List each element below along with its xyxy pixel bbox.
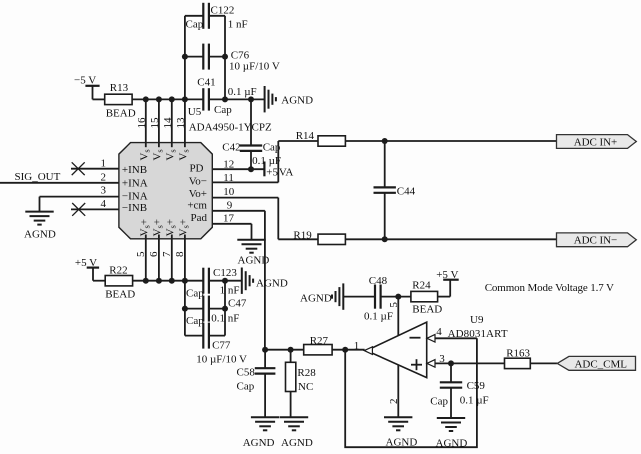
- svg-text:Cap: Cap: [186, 18, 204, 30]
- svg-text:C42: C42: [222, 141, 240, 153]
- wire pin 2 to ground: [397, 365, 399, 417]
- svg-text:BEAD: BEAD: [105, 288, 135, 300]
- svg-text:10: 10: [223, 186, 235, 198]
- resistor R22 (BEAD): [105, 264, 135, 300]
- svg-text:C41: C41: [197, 77, 215, 89]
- power -5 V: [74, 74, 100, 99]
- svg-text:15: 15: [149, 117, 161, 129]
- svg-text:BEAD: BEAD: [412, 303, 442, 315]
- svg-text:C44: C44: [397, 186, 416, 198]
- wire R19 to ADC IN-: [345, 238, 556, 240]
- power +5VA: [264, 162, 293, 179]
- opamp output arrow pin 1: [364, 347, 372, 355]
- wire pin 9 +cm horizontal: [212, 210, 265, 212]
- svg-text:SIG_OUT: SIG_OUT: [15, 171, 61, 183]
- svg-text:14: 14: [162, 117, 174, 129]
- svg-text:7: 7: [161, 251, 173, 257]
- svg-text:C59: C59: [467, 380, 486, 392]
- svg-text:Vo+: Vo+: [189, 188, 207, 200]
- capacitor C77 10uF/10V: [185, 323, 247, 366]
- svg-text:Cap: Cap: [186, 315, 204, 327]
- port ADC IN+: [557, 135, 637, 149]
- opamp input arrow pin 4: [427, 335, 435, 343]
- resistor R28 (NC): [286, 350, 317, 418]
- ground AGND at Pad: [237, 240, 269, 267]
- wire -5V to R13: [93, 98, 106, 100]
- junction dots rail AGND side: [222, 96, 254, 102]
- junction dots C76 row: [182, 54, 228, 60]
- node SIG_OUT wire pin 2: [0, 171, 119, 183]
- svg-text:AGND: AGND: [256, 277, 288, 289]
- svg-text:−INA: −INA: [122, 191, 148, 203]
- svg-text:Cap: Cap: [430, 395, 448, 407]
- port ADC IN-: [557, 233, 637, 247]
- opamp input arrow pin 3: [427, 360, 435, 368]
- svg-text:AGND: AGND: [281, 95, 313, 107]
- svg-text:C48: C48: [369, 275, 388, 287]
- junction dot C44 top: [382, 138, 388, 144]
- svg-text:C47: C47: [228, 298, 247, 310]
- wire pin 4 with no-connect: [71, 208, 119, 210]
- wire pin 5 into opamp: [397, 297, 399, 336]
- svg-text:AGND: AGND: [436, 438, 468, 450]
- svg-text:R13: R13: [110, 82, 129, 94]
- wire R14 left: [278, 140, 318, 142]
- svg-text:C58: C58: [237, 367, 256, 379]
- resistor R19: [293, 230, 345, 245]
- svg-text:6: 6: [148, 251, 160, 257]
- svg-text:−INB: −INB: [122, 202, 147, 214]
- capacitor C122 1 nF: [185, 3, 248, 31]
- ground AGND under C59: [436, 418, 468, 450]
- svg-text:R22: R22: [109, 264, 127, 276]
- capacitor C58: [237, 350, 276, 418]
- svg-text:10 µF/10 V: 10 µF/10 V: [196, 353, 247, 365]
- wire pin 12 to +5VA: [212, 168, 264, 170]
- svg-text:R163: R163: [506, 347, 530, 359]
- svg-text:AGND: AGND: [281, 437, 313, 449]
- wire +cm node to R27: [265, 349, 304, 351]
- junction dot feedback/output: [342, 347, 348, 353]
- resistor R24 (BEAD): [411, 279, 442, 315]
- svg-text:AGND: AGND: [243, 437, 275, 449]
- resistor R14: [296, 130, 346, 146]
- svg-text:9: 9: [227, 200, 233, 212]
- capacitor C76 10uF/10V: [185, 44, 280, 73]
- wires bottom pins 5 6 7 8: [146, 235, 185, 281]
- svg-text:ADC IN−: ADC IN−: [574, 235, 618, 247]
- svg-text:0.1 µF: 0.1 µF: [228, 86, 257, 98]
- pin labels inside U5 left: [122, 164, 148, 214]
- wire Vs+ rail: [133, 280, 204, 282]
- wire pin 3 to AGND: [40, 197, 119, 212]
- wire left riser C47/C77: [184, 281, 186, 336]
- ground AGND under R28: [280, 417, 313, 449]
- svg-text:C123: C123: [213, 267, 237, 279]
- svg-text:Cap: Cap: [237, 381, 255, 393]
- svg-text:4: 4: [436, 326, 442, 338]
- wire pin 3 to R163: [435, 362, 505, 364]
- no-connect X pin 1: [72, 162, 85, 175]
- svg-text:5: 5: [388, 302, 400, 308]
- svg-text:R24: R24: [412, 279, 431, 291]
- svg-text:Common Mode Voltage 1.7 V: Common Mode Voltage 1.7 V: [485, 282, 614, 294]
- wire R19 left: [278, 238, 318, 240]
- wire right riser to C122/C76: [224, 16, 226, 100]
- capacitor C47 0.1 nF: [185, 296, 247, 327]
- svg-text:11: 11: [223, 172, 234, 184]
- ground AGND mid right (sideways): [242, 268, 288, 294]
- capacitor C59 0.1 uF: [430, 363, 488, 418]
- labels U9 AD8031ART: [448, 314, 508, 340]
- wire feedback loop: [345, 338, 477, 447]
- svg-text:+5 V: +5 V: [436, 269, 458, 281]
- svg-text:AGND: AGND: [386, 437, 418, 449]
- wire pin 10 Vo+ drop to R19: [212, 198, 278, 240]
- svg-text:ADC_CML: ADC_CML: [574, 359, 627, 371]
- wire pin 17 Pad to AGND: [212, 224, 251, 240]
- svg-text:0.1 µF: 0.1 µF: [364, 310, 393, 322]
- ground AGND left of C48 (sideways): [300, 283, 343, 309]
- svg-text:13: 13: [175, 117, 187, 129]
- ground AGND under opamp: [384, 417, 417, 448]
- junction dot +cm/C58: [262, 347, 268, 353]
- svg-text:2: 2: [388, 398, 400, 404]
- svg-text:NC: NC: [298, 381, 313, 393]
- svg-text:BEAD: BEAD: [106, 108, 136, 120]
- svg-text:+5: +5: [266, 167, 278, 179]
- wire +cm vertical drop: [264, 211, 266, 350]
- wire AGND to C48: [343, 296, 374, 298]
- ground AGND under C58: [243, 417, 280, 449]
- wire pin 1 with no-connect: [71, 168, 119, 170]
- svg-text:C77: C77: [212, 339, 231, 351]
- wire bottom rail AGND side: [209, 280, 242, 282]
- pin numbers 5 6 7 8: [135, 251, 186, 257]
- op-amp U5 ADA4950-1YCPZ body: [119, 106, 272, 239]
- resistor R13 (BEAD): [105, 82, 136, 119]
- svg-text:VA: VA: [279, 167, 294, 179]
- svg-text:5: 5: [135, 251, 147, 257]
- junction dot R28 top: [288, 347, 294, 353]
- wire R27 to opamp output: [332, 349, 365, 351]
- wire R163 to ADC_CML: [530, 362, 557, 364]
- resistor R163: [505, 347, 531, 368]
- junction dots C47 row: [182, 306, 228, 312]
- svg-text:8: 8: [174, 251, 186, 257]
- wire rail AGND side: [209, 98, 265, 100]
- svg-text:0.1 µF: 0.1 µF: [460, 394, 489, 406]
- capacitor C123 1 nF: [186, 267, 239, 300]
- junction dot C44 bottom: [382, 236, 388, 242]
- svg-text:0.1 µF: 0.1 µF: [252, 155, 281, 167]
- svg-text:ADA4950-1YCPZ: ADA4950-1YCPZ: [189, 121, 272, 133]
- svg-text:Cap: Cap: [214, 104, 232, 116]
- svg-text:R19: R19: [293, 230, 312, 242]
- svg-text:Pad: Pad: [191, 212, 208, 224]
- svg-text:R28: R28: [297, 367, 316, 379]
- svg-text:12: 12: [223, 158, 234, 170]
- wire pin 4 feedback top: [435, 337, 477, 339]
- svg-text:4: 4: [101, 198, 107, 210]
- wire C48 to R24: [381, 296, 411, 298]
- ground AGND at pin 3: [24, 212, 56, 241]
- wire Vs- rail: [132, 98, 203, 100]
- svg-text:Vo−: Vo−: [189, 175, 207, 187]
- svg-text:+cm: +cm: [187, 199, 207, 211]
- svg-text:ADC IN+: ADC IN+: [574, 136, 618, 148]
- wire +5V to R22: [93, 280, 106, 282]
- wire right riser C47/C77: [224, 281, 226, 336]
- wire pin 11 Vo- riser to R14: [212, 141, 278, 182]
- svg-text:R14: R14: [296, 130, 315, 142]
- svg-text:1 nF: 1 nF: [228, 18, 248, 30]
- svg-text:−5 V: −5 V: [74, 74, 96, 86]
- svg-text:Cap: Cap: [186, 288, 204, 300]
- junction dot C59 node: [448, 360, 454, 366]
- op-amp U9 AD8031ART body: [367, 322, 427, 378]
- capacitor C48 0.1 uF: [364, 275, 393, 323]
- svg-text:U5: U5: [188, 106, 202, 118]
- Vs labels top inside U5: [138, 149, 190, 160]
- svg-text:16: 16: [136, 117, 148, 129]
- svg-text:1: 1: [101, 158, 107, 170]
- junction dot bottom rail AGND side: [222, 278, 228, 284]
- junction dot pin5 node: [395, 294, 401, 300]
- svg-text:2: 2: [101, 171, 107, 183]
- svg-text:0.1 nF: 0.1 nF: [211, 313, 239, 325]
- svg-text:3: 3: [101, 184, 107, 196]
- svg-text:+INB: +INB: [122, 164, 147, 176]
- resistor R27: [304, 335, 332, 355]
- port ADC_CML: [557, 356, 635, 370]
- pin labels inside U5 right: [187, 163, 207, 224]
- capacitor C41 0.1 uF: [197, 77, 256, 116]
- junction dots Vs+ rail: [143, 278, 188, 284]
- power +5 V left: [75, 257, 99, 281]
- capacitor C42 0.1 uF: [222, 99, 281, 169]
- svg-text:+INA: +INA: [122, 178, 148, 190]
- pin numbers 16 15 14 13: [136, 117, 187, 129]
- junction dot pin12/C42: [248, 166, 254, 172]
- svg-text:R27: R27: [310, 335, 329, 347]
- ground AGND top right (sideways): [265, 86, 314, 112]
- svg-text:17: 17: [223, 212, 235, 224]
- wire R14 to ADC IN+: [345, 140, 556, 142]
- svg-text:C122: C122: [211, 4, 235, 16]
- svg-text:U9: U9: [470, 314, 484, 326]
- svg-text:10 µF/10 V: 10 µF/10 V: [229, 61, 280, 73]
- svg-text:PD: PD: [189, 163, 203, 175]
- svg-text:AGND: AGND: [24, 229, 56, 241]
- junction dots on Vs- rail: [143, 96, 188, 102]
- svg-text:1: 1: [354, 340, 360, 352]
- capacitor C44: [374, 141, 416, 239]
- power +5 V right: [436, 269, 459, 297]
- wires top pins 16 15 14 13: [146, 99, 185, 147]
- svg-text:1 nF: 1 nF: [220, 285, 240, 297]
- svg-text:AGND: AGND: [300, 292, 332, 304]
- Vs+ labels bottom inside U5: [138, 219, 190, 236]
- wire left riser to C122/C76: [184, 16, 186, 100]
- no-connect X pin 4: [72, 203, 85, 216]
